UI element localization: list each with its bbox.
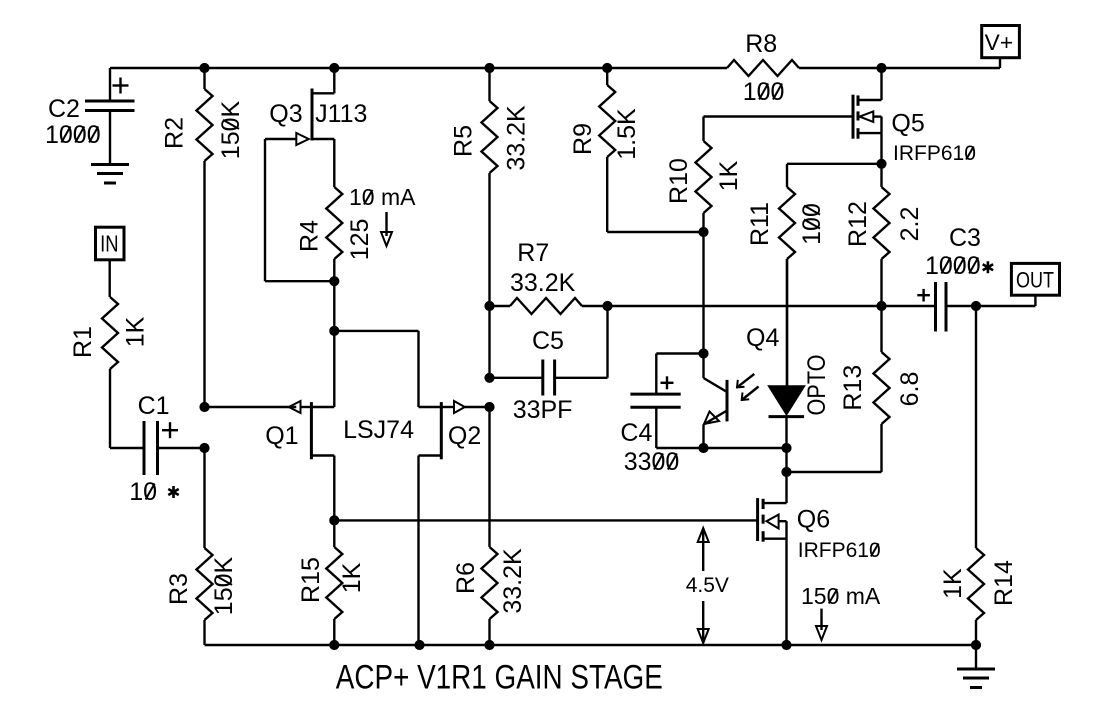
R15 label [297, 557, 325, 603]
Q6 label [797, 506, 830, 534]
wire V+ stub to rail [999, 58, 1001, 68]
annotation 4.5V arrow [698, 528, 709, 643]
svg-text:10: 10 [129, 478, 157, 506]
wire ground stub [975, 645, 977, 669]
R9 value 1.5K [613, 108, 641, 160]
Q3 gate arrow [265, 133, 309, 145]
svg-text:R12: R12 [844, 201, 872, 247]
Q4 light arrows [737, 374, 759, 400]
R5 value 33.2K [503, 105, 531, 171]
R6 value 33.2K [499, 548, 527, 614]
node input-C1 junction [200, 443, 209, 452]
resistor R3 [197, 448, 213, 645]
capacitor C3 [936, 282, 977, 332]
resistor R5 [482, 68, 498, 306]
svg-text:R11: R11 [746, 202, 774, 246]
C1 label [138, 392, 170, 420]
Q3 source lead [312, 139, 334, 187]
node rail-Q6 junction [782, 640, 791, 649]
node rail-R14-ground junction [971, 640, 980, 649]
Q1 top lead [311, 406, 334, 408]
svg-text:R3: R3 [165, 573, 193, 605]
svg-text:33PF: 33PF [513, 396, 573, 424]
node rail-R9 junction [603, 63, 612, 72]
node rail-Q2 junction [415, 640, 424, 649]
svg-text:C3: C3 [949, 224, 981, 252]
R14 value 1K [939, 568, 967, 599]
svg-text:Q6: Q6 [797, 506, 830, 534]
svg-text:1K: 1K [715, 160, 743, 191]
annotation 150 mA [801, 583, 881, 609]
svg-text:6.8: 6.8 [896, 372, 924, 407]
C4 label [620, 419, 652, 447]
svg-text:R9: R9 [569, 123, 597, 155]
svg-text:IRFP610: IRFP610 [798, 539, 881, 562]
svg-text:C4: C4 [620, 419, 652, 447]
svg-text:33.2K: 33.2K [503, 105, 531, 171]
Q4 collector [704, 354, 728, 393]
Q2 top lead [419, 406, 442, 408]
svg-text:J113: J113 [315, 100, 367, 128]
transistor Q4 base bar [726, 380, 729, 422]
svg-text:C5: C5 [532, 327, 564, 355]
R10 label [665, 158, 693, 204]
node LED-R13 junction [782, 467, 791, 476]
C2 polarity + [113, 78, 129, 94]
node R7 left junction [485, 301, 494, 310]
Q5 label [891, 109, 924, 137]
wire C4 bottom to emitter [656, 447, 786, 449]
svg-text:150K: 150K [210, 556, 238, 615]
V+ label [985, 30, 1013, 55]
node R7 right junction [603, 301, 612, 310]
svg-text:1.5K: 1.5K [613, 108, 641, 160]
annotation 10 mA [349, 184, 416, 210]
Q5 source lead [858, 117, 882, 164]
node rail-Q5 junction [877, 63, 886, 72]
port OUT box [1011, 263, 1059, 295]
resistor R9 [599, 68, 615, 232]
port IN box [96, 227, 125, 260]
R6 label [452, 562, 480, 594]
Q3 label [269, 100, 302, 128]
svg-text:Q4: Q4 [746, 324, 779, 352]
annotation 10 mA arrow [381, 212, 392, 246]
svg-text:C2: C2 [48, 95, 80, 123]
resistor R7 [510, 298, 582, 314]
node rail-R15 junction [330, 640, 339, 649]
Q1 label [265, 422, 298, 450]
Q5 part IRFP610 [893, 142, 976, 165]
svg-text:IRFP610: IRFP610 [893, 142, 976, 165]
wire R10 top to Q5 gate [704, 115, 854, 117]
wire Q5 source to R11 [787, 164, 882, 187]
resistor R8 [727, 60, 799, 76]
svg-text:V+: V+ [985, 30, 1013, 55]
node rail-R2 junction [200, 63, 209, 72]
wire R1 to C1 [110, 447, 144, 449]
node output-R14 junction [971, 301, 980, 310]
svg-text:R10: R10 [665, 158, 693, 204]
Q5 channel [857, 95, 860, 138]
node R12-R13 output junction [877, 301, 886, 310]
wire V+ top rail [110, 67, 1000, 69]
transistor Q6 gate bar [756, 498, 759, 541]
R3 value 150K [210, 556, 238, 615]
transistor Q5 gate bar [852, 95, 855, 139]
node Q5 source junction [877, 159, 886, 168]
R4 label [296, 220, 324, 252]
node Q1-Q2 source tie [330, 326, 339, 335]
R10 value 1K [715, 160, 743, 191]
node rail-Q3 junction [330, 63, 339, 72]
svg-text:150 mA: 150 mA [801, 583, 881, 609]
R7 label [517, 239, 549, 267]
ground under C2 [91, 165, 129, 184]
transistor Q3 channel bar [311, 89, 314, 141]
svg-text:10 mA: 10 mA [349, 184, 416, 210]
svg-text:R13: R13 [839, 365, 867, 411]
C2 value 1000 [45, 121, 101, 149]
OPTO label [803, 355, 831, 416]
R12 label [844, 201, 872, 247]
transistor Q1 channel bar [310, 402, 313, 459]
svg-text:OPTO: OPTO [803, 355, 831, 416]
wire C4 top [656, 354, 703, 395]
wire R10 node down to Q4 [702, 232, 704, 354]
C5 value 33PF [513, 396, 573, 424]
resistor R1 [102, 297, 118, 448]
wire R9 to R10 bottom [607, 231, 703, 233]
node rail-R5 junction [485, 63, 494, 72]
svg-text:1K: 1K [122, 316, 150, 347]
svg-text:1K: 1K [939, 568, 967, 599]
svg-text:R7: R7 [517, 239, 549, 267]
R7 value 33.2K [510, 269, 576, 297]
R13 label [839, 365, 867, 411]
R11 label [746, 202, 774, 246]
C4 polarity + [661, 376, 674, 389]
svg-text:IN: IN [100, 231, 118, 257]
resistor R14 [968, 306, 984, 645]
svg-text:Q3: Q3 [269, 100, 302, 128]
svg-text:4.5V: 4.5V [686, 574, 729, 597]
svg-text:R14: R14 [990, 560, 1018, 606]
Q6 source lead [763, 521, 786, 645]
resistor R10 [696, 117, 712, 233]
svg-text:LSJ74: LSJ74 [343, 416, 414, 444]
resistor R2 [197, 68, 213, 407]
Q2 label [448, 422, 481, 450]
resistor R4 [326, 187, 342, 281]
annotation 4.5V [686, 574, 729, 597]
Q4 label [746, 324, 779, 352]
R5 label [450, 125, 478, 157]
node rail-R6 junction [485, 640, 494, 649]
node Q4 collector junction [699, 349, 708, 358]
diode OPTO LED [769, 259, 805, 448]
svg-text:33.2K: 33.2K [499, 548, 527, 614]
title text [336, 659, 663, 697]
svg-text:Q1: Q1 [265, 422, 298, 450]
svg-text:33.2K: 33.2K [510, 269, 576, 297]
R2 value 150K [217, 100, 245, 159]
Q6 body arrow [766, 515, 786, 529]
wire output line [490, 305, 936, 307]
R2 label [161, 117, 189, 149]
Q5 drain lead [858, 68, 882, 100]
LSJ74 label [343, 416, 414, 444]
capacitor C2 [85, 68, 135, 165]
node LED cathode junction [782, 443, 791, 452]
Q2 gate wire with arrow [441, 401, 489, 413]
capacitor C1 [144, 421, 205, 475]
svg-text:R5: R5 [450, 125, 478, 157]
wire IN to R1 [108, 260, 110, 297]
Q2 bottom lead [419, 456, 442, 646]
svg-text:R1: R1 [69, 326, 97, 358]
IN label [100, 231, 118, 257]
svg-text:R2: R2 [161, 117, 189, 149]
Q1 bottom lead [311, 456, 334, 521]
R1 value 1K [122, 316, 150, 347]
Q3 part J113 [315, 100, 367, 128]
C2 label [48, 95, 80, 123]
R3 label [165, 573, 193, 605]
node R9-R10 junction [699, 227, 708, 236]
Q5 body arrow [860, 111, 882, 122]
C4 value 3300 [624, 448, 680, 476]
node input-gate junction [200, 402, 209, 411]
wire Q1 drain to Q6 gate [334, 519, 757, 521]
node Q4 emitter junction [699, 443, 708, 452]
C5 label [532, 327, 564, 355]
R15 value 1K [338, 562, 366, 593]
svg-text:R6: R6 [452, 562, 480, 594]
node Q2 gate junction [485, 402, 494, 411]
node C5 left junction [485, 373, 494, 382]
node Q1 drain junction [330, 516, 339, 525]
svg-text:R15: R15 [297, 557, 325, 603]
wire R5 node to C5 [490, 306, 543, 378]
wire bottom ground rail [205, 644, 977, 646]
resistor R13 [787, 306, 890, 472]
wire LED node to Q6 drain [785, 448, 787, 503]
port V+ box [982, 26, 1020, 58]
C3 value 1000* [925, 252, 993, 280]
svg-text:Q5: Q5 [891, 109, 924, 137]
Q1 gate wire with arrow [205, 401, 312, 413]
svg-text:125: 125 [346, 219, 374, 261]
transistor Q2 channel bar [440, 402, 443, 459]
wire rail to Q3 drain [312, 68, 334, 93]
Q6 drain lead [763, 502, 786, 504]
wire Q3 gate loop [265, 139, 334, 281]
Q6 part IRFP610 [798, 539, 881, 562]
R13 value 6.8 [896, 372, 924, 407]
resistor R15 [326, 520, 342, 645]
resistor R6 [482, 407, 498, 645]
R11 value 100 [798, 203, 826, 245]
capacitor C5 [543, 306, 608, 396]
C3 label [949, 224, 981, 252]
svg-text:150K: 150K [217, 100, 245, 159]
svg-text:R4: R4 [296, 220, 324, 252]
svg-text:C1: C1 [138, 392, 170, 420]
svg-text:2.2: 2.2 [896, 207, 924, 242]
capacitor C4 [630, 394, 680, 448]
R8 value 100 [743, 78, 785, 106]
C1 polarity + [162, 422, 178, 438]
R14 label [990, 560, 1018, 606]
svg-text:ACP+ V1R1 GAIN STAGE: ACP+ V1R1 GAIN STAGE [336, 659, 663, 697]
wire R4 node down to sources [333, 281, 335, 407]
Q6 channel [762, 499, 765, 542]
svg-text:R8: R8 [745, 30, 777, 58]
R9 label [569, 123, 597, 155]
C3 polarity + [917, 289, 930, 302]
R4 value 125 [346, 219, 374, 261]
C1 value 10* [129, 478, 179, 506]
wire Q1-Q2 source tie bar [334, 331, 418, 407]
resistor R12 [874, 164, 890, 306]
R1 label [69, 326, 97, 358]
svg-text:Q2: Q2 [448, 422, 481, 450]
Q4 emitter with arrow [704, 411, 728, 449]
wire to OUT port [976, 295, 1035, 306]
annotation 150 mA arrow [816, 609, 827, 640]
R12 value 2.2 [896, 207, 924, 242]
R8 label [745, 30, 777, 58]
ground under R14 [957, 669, 995, 688]
OUT label [1016, 268, 1054, 293]
resistor R11 [779, 187, 795, 386]
node R4-gate-loop junction [330, 277, 339, 286]
svg-text:1K: 1K [338, 562, 366, 593]
svg-text:OUT: OUT [1016, 268, 1054, 293]
